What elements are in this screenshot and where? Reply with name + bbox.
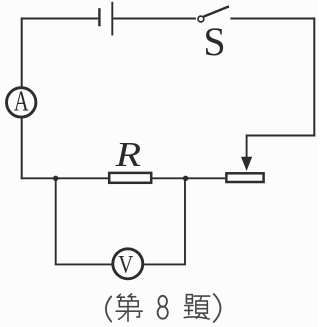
wire left vertical upper (top corner to ammeter) xyxy=(21,18,23,88)
voltmeter V1 circle xyxy=(113,249,143,279)
caption digit 8 xyxy=(158,296,168,319)
wire top left horizontal xyxy=(21,18,99,20)
wire voltmeter branch right vertical xyxy=(184,178,186,264)
caption right parenthesis xyxy=(214,294,221,322)
wire switch to top right corner xyxy=(230,18,315,20)
wire rheostat to right junction xyxy=(186,177,226,179)
wire voltmeter branch left vertical xyxy=(55,178,57,264)
caption glyph 题 xyxy=(184,295,209,319)
svg-text:S: S xyxy=(203,19,225,64)
caption (第 8 题) xyxy=(106,294,221,322)
junction dot left xyxy=(53,176,58,181)
caption left parenthesis xyxy=(106,297,111,322)
resistor R body xyxy=(109,173,151,183)
battery B1 short plate (negative) xyxy=(98,8,100,26)
wire battery to switch xyxy=(113,18,196,20)
wire ammeter to bottom wire xyxy=(21,118,23,180)
battery B1 long plate (positive) xyxy=(111,2,113,36)
switch S blade xyxy=(204,6,229,16)
wire voltmeter branch bottom left horizontal xyxy=(55,263,113,265)
wire resistor to left junction xyxy=(56,177,108,179)
svg-text:A: A xyxy=(14,86,29,117)
wire right junction to resistor xyxy=(152,177,185,179)
svg-text:V: V xyxy=(118,250,133,279)
rheostat slider arrow shaft xyxy=(246,135,248,161)
switch S pivot xyxy=(198,16,204,22)
caption glyph 第 xyxy=(116,294,142,321)
wire voltmeter to right vertical xyxy=(143,263,186,265)
wire left junction to left edge xyxy=(21,177,56,179)
svg-text:R: R xyxy=(114,135,141,174)
wire elbow horizontal to slider xyxy=(247,135,316,137)
ammeter A1 circle xyxy=(7,88,36,117)
rheostat slider arrowhead xyxy=(241,157,252,171)
wire right vertical xyxy=(313,18,315,137)
junction dot right xyxy=(183,176,188,181)
rheostat RP body xyxy=(226,173,263,182)
